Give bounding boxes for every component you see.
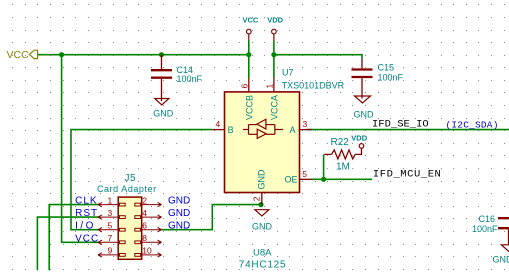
svg-text:4: 4 (216, 119, 221, 129)
junction at OE/R22 (321, 177, 326, 182)
svg-text:100nF: 100nF (378, 73, 404, 83)
global label VCC (7, 49, 38, 61)
wire RST (37, 217, 99, 270)
J5 pin 10 (135, 253, 162, 257)
wire GND link J5 pin6 to U7 pin2 (162, 205, 262, 230)
svg-text:C16: C16 (479, 214, 496, 224)
svg-text:RST: RST (75, 208, 98, 219)
svg-text:VDD: VDD (267, 15, 283, 24)
svg-text:8: 8 (142, 233, 147, 243)
svg-text:VDD: VDD (351, 133, 367, 142)
svg-text:74HC125: 74HC125 (239, 259, 287, 270)
junction at U7 pin2 GND (258, 202, 263, 207)
connector J5 body (118, 197, 142, 259)
svg-text:(I2C_SDA): (I2C_SDA) (446, 119, 499, 130)
svg-text:VCC: VCC (75, 233, 99, 244)
power symbol VCC (243, 15, 259, 40)
svg-text:Card Adapter: Card Adapter (97, 184, 157, 194)
svg-text:R22: R22 (331, 137, 350, 148)
svg-text:U8A: U8A (253, 248, 272, 259)
wire VCC rail (37, 41, 509, 271)
svg-text:5: 5 (302, 169, 307, 179)
svg-text:9: 9 (108, 246, 113, 256)
U7 pin 4 B (212, 119, 224, 130)
junction at VCC/J5 (59, 52, 64, 57)
svg-text:3: 3 (303, 119, 308, 129)
svg-text:J5: J5 (125, 173, 137, 184)
wire IFD_SE_IO (307, 129, 509, 131)
svg-text:1: 1 (264, 84, 274, 89)
wire VDD to U7 pin1 (273, 41, 275, 79)
J5 pin 7 (98, 240, 125, 244)
svg-text:IFD_SE_IO: IFD_SE_IO (372, 119, 429, 131)
svg-text:100nF: 100nF (177, 74, 203, 84)
svg-text:100nF: 100nF (472, 224, 498, 234)
svg-text:2: 2 (142, 195, 147, 205)
J5 pin 3 (98, 215, 125, 219)
svg-text:GND: GND (257, 169, 267, 190)
power symbol VDD (267, 15, 283, 40)
svg-text:GND: GND (493, 254, 509, 264)
wire VDD rail (274, 55, 362, 59)
svg-text:VCC: VCC (7, 49, 30, 61)
ground symbol for C14 (153, 99, 174, 119)
wire VCC to U7 pin6 (248, 41, 250, 79)
svg-text:10: 10 (142, 246, 152, 256)
capacitor C15 (352, 59, 404, 99)
junction at VCC pin6 (246, 52, 251, 57)
U7 buffer symbol (243, 119, 283, 138)
svg-text:C15: C15 (378, 63, 395, 73)
U7 pin 3 A (300, 119, 312, 129)
svg-text:B: B (228, 125, 234, 135)
junction at C14 (159, 52, 164, 57)
svg-text:VCCB: VCCB (244, 95, 254, 120)
svg-text:4: 4 (142, 208, 147, 218)
U7 pin 6 (239, 78, 249, 92)
U7 pin 2 GND (252, 193, 262, 205)
svg-text:GND: GND (252, 221, 273, 231)
svg-text:1M: 1M (336, 162, 350, 173)
svg-text:GND: GND (354, 110, 375, 120)
J5 pin 5 (98, 228, 125, 232)
wire IFD_MCU_EN (312, 178, 372, 180)
svg-text:2: 2 (252, 196, 262, 201)
svg-text:GND: GND (153, 109, 174, 119)
svg-text:5: 5 (108, 220, 113, 230)
svg-text:I/O: I/O (75, 221, 96, 232)
svg-text:3: 3 (108, 208, 113, 218)
junction at VDD pin1 (271, 52, 276, 57)
svg-text:VCCA: VCCA (269, 95, 279, 120)
capacitor C16 (472, 214, 509, 245)
ground symbol for C16 (493, 245, 509, 265)
svg-text:GND: GND (168, 208, 190, 219)
power symbol VDD at R22 (351, 133, 367, 148)
svg-text:VCC: VCC (243, 15, 259, 24)
J5 pin 6 (135, 228, 162, 232)
J5 pin 8 (135, 240, 162, 244)
J5 pin 2 (135, 202, 162, 206)
svg-text:GND: GND (168, 196, 190, 207)
svg-text:OE: OE (285, 175, 298, 185)
wire CLK (49, 205, 99, 271)
U7 pin 5 OE (300, 169, 313, 179)
J5 pin 1 (98, 202, 125, 206)
J5 pin 9 (98, 253, 125, 257)
svg-text:6: 6 (142, 220, 147, 230)
J5 pin 4 (135, 215, 162, 219)
capacitor C14 (151, 55, 203, 101)
op-amp U7 body (225, 92, 300, 193)
resistor R22 (324, 137, 361, 172)
svg-text:U7: U7 (282, 68, 294, 78)
wire node B to J5 I/O (71, 130, 212, 230)
svg-text:6: 6 (239, 84, 249, 89)
wire OE to R22 (323, 154, 325, 179)
svg-text:GND: GND (168, 221, 190, 232)
svg-text:TXS0101DBVR: TXS0101DBVR (282, 81, 345, 91)
ground symbol for C15 (354, 96, 375, 120)
svg-text:CLK: CLK (75, 196, 97, 207)
U7 pin 1 (264, 78, 274, 92)
svg-text:IFD_MCU_EN: IFD_MCU_EN (373, 168, 442, 180)
svg-text:A: A (290, 125, 296, 135)
svg-text:7: 7 (108, 233, 113, 243)
svg-text:1: 1 (108, 195, 113, 205)
ground symbol at U7 pin2 (252, 210, 273, 232)
wire VCC to J5 pin7 (62, 55, 100, 243)
